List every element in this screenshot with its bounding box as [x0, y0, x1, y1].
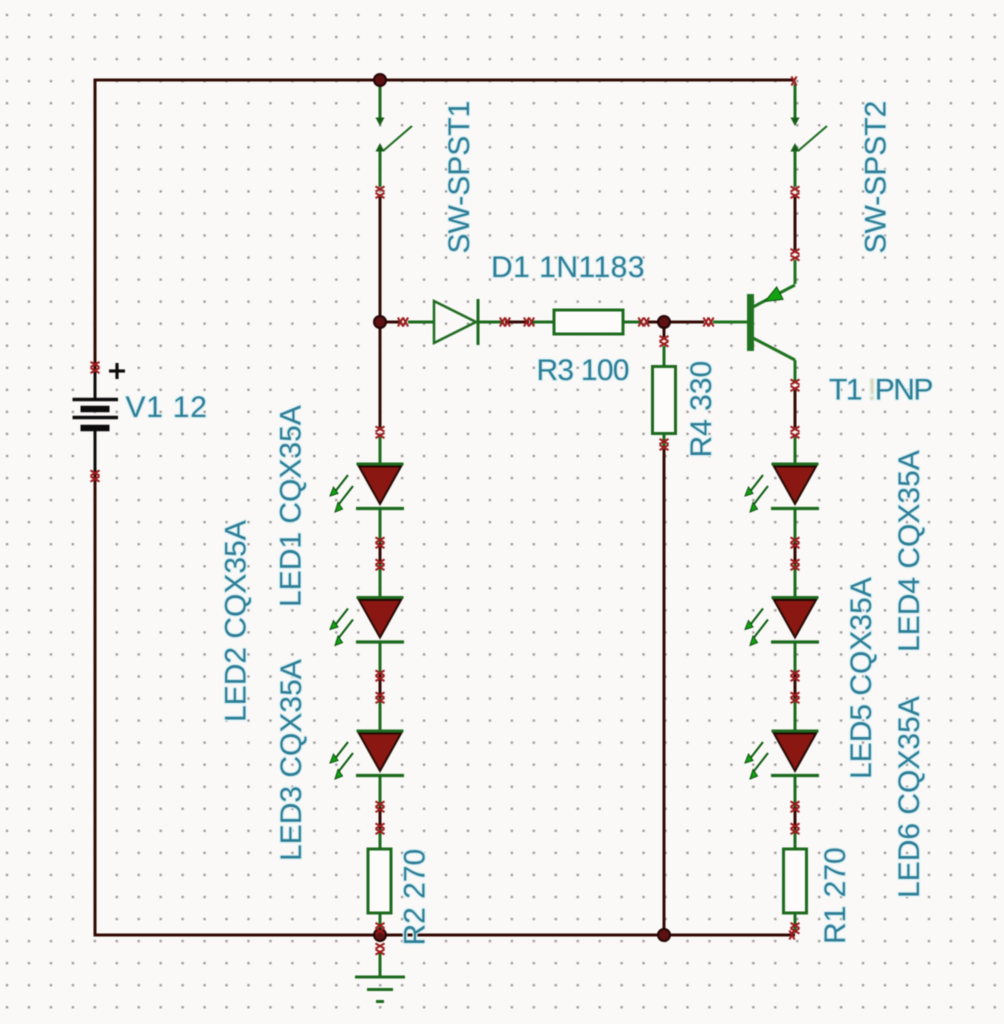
svg-text:V1 12: V1 12 [126, 391, 208, 424]
svg-text:R3 100: R3 100 [537, 354, 629, 387]
svg-text:SW-SPST2: SW-SPST2 [860, 101, 893, 254]
svg-text:LED4 CQX35A: LED4 CQX35A [893, 450, 926, 652]
svg-text:LED3 CQX35A: LED3 CQX35A [275, 659, 308, 861]
svg-text:LED2 CQX35A: LED2 CQX35A [220, 520, 253, 722]
svg-text:R4 330: R4 330 [685, 361, 718, 458]
svg-text:SW-SPST1: SW-SPST1 [443, 101, 476, 254]
svg-text:LED5 CQX35A: LED5 CQX35A [845, 577, 878, 779]
svg-text:R2 270: R2 270 [399, 849, 432, 946]
svg-text:R1 270: R1 270 [819, 847, 852, 944]
svg-text:D1 1N1183: D1 1N1183 [491, 251, 645, 284]
svg-text:LED1 CQX35A: LED1 CQX35A [275, 405, 308, 607]
svg-text:T1 !PNP: T1 !PNP [829, 374, 932, 407]
svg-text:LED6 CQX35A: LED6 CQX35A [893, 696, 926, 898]
